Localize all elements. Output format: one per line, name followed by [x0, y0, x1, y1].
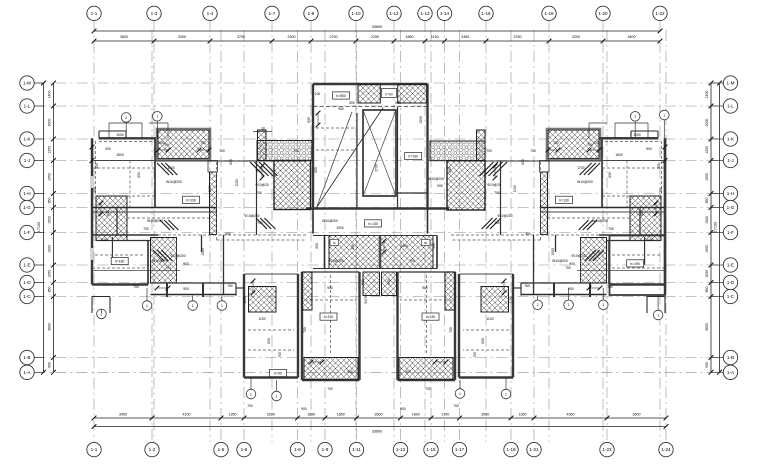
wall left unit bottom [92, 283, 148, 285]
svg-text:1-M: 1-M [727, 81, 735, 86]
svg-text:500: 500 [95, 163, 99, 169]
shear wall hatch right bay P2 sill [399, 358, 453, 380]
tie bar top left 2 [149, 122, 168, 124]
grid line col bottom 1-21 [533, 30, 535, 442]
grid bubble bottom 1-23 [600, 442, 614, 456]
grid line row 1-H [35, 193, 724, 195]
leader right 1-K [711, 138, 723, 140]
leader left 1-H [34, 193, 43, 195]
wall elevator east band [397, 107, 399, 209]
minidim east top [664, 147, 666, 161]
grid bubble right 1-A [723, 365, 737, 379]
svg-text:1-D: 1-D [23, 280, 31, 285]
svg-text:500: 500 [361, 279, 365, 285]
svg-text:700: 700 [473, 352, 477, 358]
svg-text:800: 800 [481, 338, 485, 344]
svg-text:1-J: 1-J [727, 158, 733, 163]
level box h=130 [422, 313, 439, 320]
svg-text:600: 600 [106, 210, 110, 216]
grid bubble top 1-1 [87, 6, 101, 20]
svg-text:17100: 17100 [37, 222, 41, 233]
svg-text:1-17: 1-17 [455, 447, 465, 452]
detail circle 1 [564, 300, 574, 310]
shear wall hatch center low a [363, 272, 380, 296]
grid line col bottom 1-5 [220, 30, 222, 442]
svg-text:1800: 1800 [615, 153, 623, 157]
wall left unit top [99, 137, 158, 139]
shear wall hatch right H7 stack [581, 238, 607, 284]
wall left lower strip bottom [151, 294, 237, 296]
svg-text:2250: 2250 [371, 35, 379, 39]
grid bubble bottom 1-5 [214, 442, 228, 456]
wall left closet [111, 237, 113, 265]
detail leader [505, 378, 507, 390]
svg-text:900: 900 [432, 243, 436, 249]
svg-text:3750: 3750 [514, 35, 522, 39]
window right west a [663, 176, 666, 188]
beam dashed left living frame [216, 162, 218, 240]
leader right 1-C [711, 296, 723, 298]
svg-text:1800: 1800 [116, 153, 124, 157]
detail leader [568, 288, 570, 300]
leader right 1-L [711, 105, 723, 107]
wall right bay P1 west [512, 274, 514, 378]
shear wall hatch pier H4r column [477, 130, 486, 161]
svg-text:900: 900 [301, 407, 307, 411]
svg-text:1-H: 1-H [727, 191, 734, 196]
svg-text:1900: 1900 [47, 245, 51, 253]
grid line col top 1-3 [153, 21, 155, 442]
grid line col bottom 1-11 [356, 30, 358, 442]
grid bubble right 1-L [723, 99, 737, 113]
svg-text:3600: 3600 [47, 323, 51, 331]
svg-text:1-F: 1-F [24, 230, 31, 235]
shear wall hatch pier H4 (pebble) [257, 141, 312, 161]
grid bubble bottom 1-11 [349, 442, 363, 456]
svg-text:5470: 5470 [364, 296, 368, 304]
svg-text:850: 850 [47, 287, 51, 293]
grid line col top 1-13 [424, 21, 426, 442]
window left west b [90, 248, 93, 260]
grid line col top 1-7 [271, 21, 273, 442]
detail leader [250, 378, 252, 390]
grid bubble top 1-14 [437, 6, 451, 20]
wall right unit top [599, 137, 658, 139]
svg-text:3600: 3600 [705, 323, 709, 331]
beam dashed right room2 [602, 195, 630, 197]
shear wall hatch pier H4 column [258, 130, 267, 161]
wall left bay P2 top [302, 271, 360, 273]
detail circle 1 [142, 301, 152, 311]
wall right unit east [664, 138, 666, 295]
shear wall hatch core band b [381, 236, 433, 269]
wall left bay P2 bottom [302, 379, 360, 381]
grid line col bottom 1-13 [400, 30, 402, 442]
svg-text:1500: 1500 [705, 216, 709, 224]
svg-text:1: 1 [146, 304, 148, 308]
svg-text:1-L: 1-L [727, 104, 734, 109]
svg-text:1250: 1250 [705, 146, 709, 154]
svg-text:700: 700 [256, 191, 262, 195]
detail leader [663, 120, 665, 138]
shear wall hatch right H3 pier [541, 172, 548, 235]
grid line col top 1-22 [659, 21, 661, 442]
svg-text:1700: 1700 [577, 166, 585, 170]
dimension line top segments [94, 40, 660, 42]
grid line col bottom 1-8 [297, 30, 299, 442]
grid bubble right 1-D [723, 275, 737, 289]
svg-text:2300: 2300 [288, 35, 296, 39]
svg-text:900: 900 [47, 362, 51, 368]
beam dashed left top edge [99, 141, 155, 143]
svg-text:h=60: h=60 [385, 93, 392, 97]
wall left unit parapet [98, 131, 100, 138]
grid bubble left 1-A [20, 365, 34, 379]
svg-text:1-1: 1-1 [91, 11, 98, 16]
svg-text:1-19: 1-19 [506, 447, 516, 452]
svg-text:1-2: 1-2 [149, 447, 156, 452]
wall right line under H1 [451, 160, 601, 162]
wall right interior vert a [601, 138, 603, 207]
detail leader [100, 309, 102, 313]
svg-text:1-21: 1-21 [529, 447, 539, 452]
wall right bay P2 top [398, 271, 456, 273]
door stub left b [202, 283, 204, 297]
grid bubble right 1-H [723, 186, 737, 200]
svg-text:1150: 1150 [513, 185, 517, 192]
svg-text:1: 1 [192, 304, 194, 308]
grid line col top 1-12 [393, 21, 395, 442]
wall right below-unit step [647, 296, 665, 298]
svg-text:1-14: 1-14 [440, 11, 450, 16]
svg-text:500: 500 [657, 163, 661, 169]
wall right interior horiz F [607, 240, 662, 242]
svg-text:1700: 1700 [167, 166, 175, 170]
svg-text:1b: 1b [333, 241, 337, 245]
svg-text:700: 700 [247, 404, 253, 408]
grid bubble right 1-K [723, 132, 737, 146]
svg-text:900: 900 [105, 147, 111, 151]
svg-text:1: 1 [602, 303, 604, 307]
svg-text:3600: 3600 [120, 35, 128, 39]
svg-text:700: 700 [453, 404, 459, 408]
stair flight diagonal [317, 108, 384, 208]
grid bubble top 1-18 [542, 6, 556, 20]
wall right lower strip bottom [521, 294, 607, 296]
svg-text:850: 850 [47, 198, 51, 204]
svg-text:700: 700 [327, 387, 333, 391]
svg-text:2000: 2000 [47, 119, 51, 127]
svg-text:1: 1 [663, 113, 665, 117]
svg-text:1400: 1400 [705, 91, 709, 99]
grid bubble bottom 1-1 [87, 442, 101, 456]
grid line row 1-K [35, 138, 724, 140]
wall right unit parapet [657, 131, 659, 138]
svg-text:700: 700 [449, 327, 453, 333]
beam dashed core band bottom [313, 106, 428, 108]
svg-text:1-H: 1-H [23, 191, 30, 196]
svg-text:900: 900 [395, 101, 401, 105]
wall left bay P2 east [358, 272, 360, 380]
leader left 1-M [34, 82, 43, 84]
leader left 1-C [34, 296, 43, 298]
svg-text:h=130: h=130 [186, 198, 196, 202]
grid bubble right 1-M [723, 76, 737, 90]
svg-text:1: 1 [156, 115, 158, 119]
shear wall hatch left H3 pier [210, 172, 217, 235]
svg-text:900: 900 [338, 107, 344, 111]
svg-text:1-A: 1-A [727, 370, 735, 375]
svg-text:1900: 1900 [551, 248, 555, 256]
grid line row 1-J [35, 160, 724, 162]
wall right interior row J [602, 160, 665, 162]
wall left bay P1 bottom [244, 376, 298, 378]
svg-text:1: 1 [276, 394, 278, 398]
svg-text:1500: 1500 [47, 216, 51, 224]
grid line col bottom 1-6 [243, 30, 245, 442]
grid bubble top 1-16 [479, 6, 493, 20]
svg-text:900: 900 [705, 362, 709, 368]
minidim H1 left [158, 149, 168, 151]
rebar marks left hall [153, 250, 164, 261]
svg-text:1-B: 1-B [23, 355, 30, 360]
svg-text:700: 700 [257, 221, 263, 225]
svg-text:h=130: h=130 [426, 315, 436, 319]
svg-text:1000: 1000 [633, 133, 641, 137]
svg-text:700: 700 [143, 227, 149, 231]
beam dashed right room1 [602, 167, 665, 169]
shear wall hatch left bay P2 sill [304, 358, 358, 380]
beam right row E-mid [577, 270, 665, 272]
svg-text:400: 400 [525, 232, 531, 236]
minidim pier r [494, 166, 496, 178]
grid line col top 1-9 [310, 21, 312, 442]
svg-text:700: 700 [486, 149, 492, 153]
detail circle 2 [97, 309, 107, 319]
wall right bay P1 east [458, 274, 460, 378]
beam dashed right living frame [540, 162, 542, 240]
door box left H3 top [208, 161, 218, 173]
leader left 1-E [34, 264, 43, 266]
svg-text:3700: 3700 [237, 35, 245, 39]
leader left 1-B [34, 357, 43, 359]
svg-text:Φ10@200: Φ10@200 [170, 254, 185, 258]
svg-text:W10@200: W10@200 [152, 259, 168, 263]
svg-text:800: 800 [608, 172, 612, 178]
leader left 1-L [34, 105, 43, 107]
detail leader [459, 380, 461, 389]
rebar marks right hall [593, 250, 604, 261]
wall core bottom [306, 207, 449, 209]
detail leader [276, 380, 278, 391]
level box h=130 [556, 196, 573, 203]
minidim bay1 [252, 281, 254, 293]
svg-text:h=180: h=180 [115, 260, 125, 264]
grid bubble bottom 1-2 [145, 442, 159, 456]
svg-text:1-20: 1-20 [598, 11, 608, 16]
wall right lower room [610, 236, 666, 296]
detail circle 1 [455, 389, 465, 399]
svg-text:1-13: 1-13 [420, 11, 430, 16]
minidim stripr [589, 287, 600, 289]
grid line row 1-C [35, 296, 724, 298]
shear wall hatch left bay P1 [249, 287, 277, 313]
svg-text:1250: 1250 [47, 146, 51, 154]
svg-text:700: 700 [409, 259, 415, 263]
wall left lower rooms [201, 235, 203, 252]
dimension line bottom overall 33600 [94, 426, 666, 428]
svg-text:1-B: 1-B [727, 355, 734, 360]
grid line col bottom 1-24 [665, 30, 667, 442]
svg-text:h=90: h=90 [274, 372, 282, 376]
beam dashed right under H1 [548, 160, 599, 162]
svg-text:1400: 1400 [400, 244, 408, 248]
beam left row E-mid [92, 270, 180, 272]
wall right interior vert b [608, 241, 610, 285]
grid bubble top 1-13 [418, 6, 432, 20]
detail leader [634, 121, 636, 138]
core band label 5b [422, 240, 431, 246]
svg-text:1-C: 1-C [23, 294, 31, 299]
beam dashed left bay P1 [248, 329, 294, 331]
svg-text:1050: 1050 [47, 270, 51, 278]
svg-text:900: 900 [183, 287, 189, 291]
svg-text:Φ10@200: Φ10@200 [571, 254, 586, 258]
door stub left a [166, 283, 168, 297]
grid bubble bottom 1-8 [290, 442, 304, 456]
beam dashed left west in [95, 141, 97, 196]
detail leader [156, 121, 158, 138]
wall right lower room inner dash [612, 254, 662, 256]
svg-text:1-A: 1-A [23, 370, 31, 375]
svg-text:1-E: 1-E [727, 263, 734, 268]
grid bubble left 1-D [20, 275, 34, 289]
elevator shaft [363, 110, 396, 196]
grid bubble left 1-F [20, 225, 34, 239]
leader left 1-G [34, 207, 43, 209]
svg-text:700: 700 [494, 221, 500, 225]
grid bubble left 1-E [20, 258, 34, 272]
svg-text:3200: 3200 [267, 412, 275, 416]
wall left bay P1 west [243, 274, 245, 378]
svg-text:150: 150 [659, 187, 663, 193]
tie bar top right 2 [589, 122, 607, 124]
grid bubble right 1-B [723, 350, 737, 364]
grid line col bottom 1-9 [324, 30, 326, 442]
svg-text:17100: 17100 [713, 222, 717, 233]
rebar marks left living [157, 163, 169, 175]
svg-text:2600: 2600 [375, 412, 383, 416]
svg-text:700: 700 [425, 387, 431, 391]
svg-text:1800: 1800 [412, 412, 420, 416]
minidim core l [317, 113, 319, 125]
wall left below-unit step [92, 296, 110, 298]
core band label 1b [330, 240, 339, 246]
svg-text:100: 100 [315, 92, 321, 96]
svg-text:700: 700 [158, 141, 164, 145]
svg-text:1-15: 1-15 [426, 447, 436, 452]
grid bubble top 1-22 [653, 6, 667, 20]
wall left lower room inner dash [95, 254, 145, 256]
grid line col top 1-10 [355, 21, 357, 442]
grid bubble left 1-L [20, 99, 34, 113]
svg-text:900: 900 [400, 407, 406, 411]
svg-text:1100: 1100 [509, 296, 513, 303]
svg-text:2: 2 [537, 303, 539, 307]
svg-text:800: 800 [137, 172, 141, 178]
tie bar top right [615, 122, 648, 124]
dimension line right overall 17100 [719, 83, 721, 372]
svg-text:33600: 33600 [372, 430, 383, 434]
door stub right b [553, 283, 555, 297]
grid bubble bottom 1-24 [659, 442, 673, 456]
wall right interior G2 [541, 211, 665, 213]
wall right unit top [599, 137, 658, 139]
svg-text:1-12: 1-12 [389, 11, 399, 16]
core band label box [382, 89, 397, 98]
svg-text:1900: 1900 [705, 245, 709, 253]
detail circle 1 [188, 301, 198, 311]
svg-text:700: 700 [303, 327, 307, 333]
wall right bay P2 east [396, 272, 398, 380]
wall right G-F vert [639, 209, 641, 236]
wall core east [426, 84, 428, 209]
svg-text:1: 1 [657, 313, 659, 317]
svg-text:33600: 33600 [372, 25, 383, 29]
grid line col bottom 1-17 [459, 30, 461, 442]
rebar marks left pier [250, 162, 264, 176]
shear wall hatch core top band H6a [358, 85, 380, 104]
wall right bedroom divider [500, 161, 502, 235]
svg-text:700: 700 [278, 352, 282, 358]
grid bubble left 1-J [20, 153, 34, 167]
grid bubble top 1-9 [304, 6, 318, 20]
grid bubble left 1-H [20, 186, 34, 200]
svg-text:900: 900 [315, 243, 319, 249]
leader right 1-E [711, 264, 723, 266]
grid line row 1-L [35, 105, 724, 107]
svg-text:700: 700 [565, 266, 571, 270]
grid bubble left 1-K [20, 132, 34, 146]
leader right 1-F [711, 232, 723, 234]
svg-text:1-16: 1-16 [481, 11, 491, 16]
grid bubble left 1-B [20, 350, 34, 364]
svg-text:1350: 1350 [229, 412, 237, 416]
leader right 1-G [711, 207, 723, 209]
detail circle 1 [217, 301, 227, 311]
svg-text:800: 800 [405, 370, 411, 374]
svg-text:1-10: 1-10 [351, 11, 361, 16]
wall core lower west [312, 209, 314, 234]
beam dashed right hall [580, 241, 582, 284]
shear wall hatch pier H5 [274, 161, 311, 210]
grid line row 1-G [35, 207, 724, 209]
detail circle 2 [533, 300, 543, 310]
wall right bay P2 bottom [398, 379, 456, 381]
leader left 1-A [34, 371, 43, 373]
svg-text:2700: 2700 [375, 164, 379, 172]
shear wall hatch core top band H6b [398, 85, 427, 104]
svg-text:1900: 1900 [201, 248, 205, 256]
rebar marks left mid [160, 220, 170, 230]
svg-text:700: 700 [494, 191, 500, 195]
grid line row 1-A [35, 371, 724, 373]
svg-text:900: 900 [422, 286, 428, 290]
svg-text:W10@200: W10@200 [166, 180, 182, 184]
svg-text:500: 500 [351, 244, 355, 250]
svg-text:1-J: 1-J [24, 158, 30, 163]
svg-text:700: 700 [200, 141, 206, 145]
